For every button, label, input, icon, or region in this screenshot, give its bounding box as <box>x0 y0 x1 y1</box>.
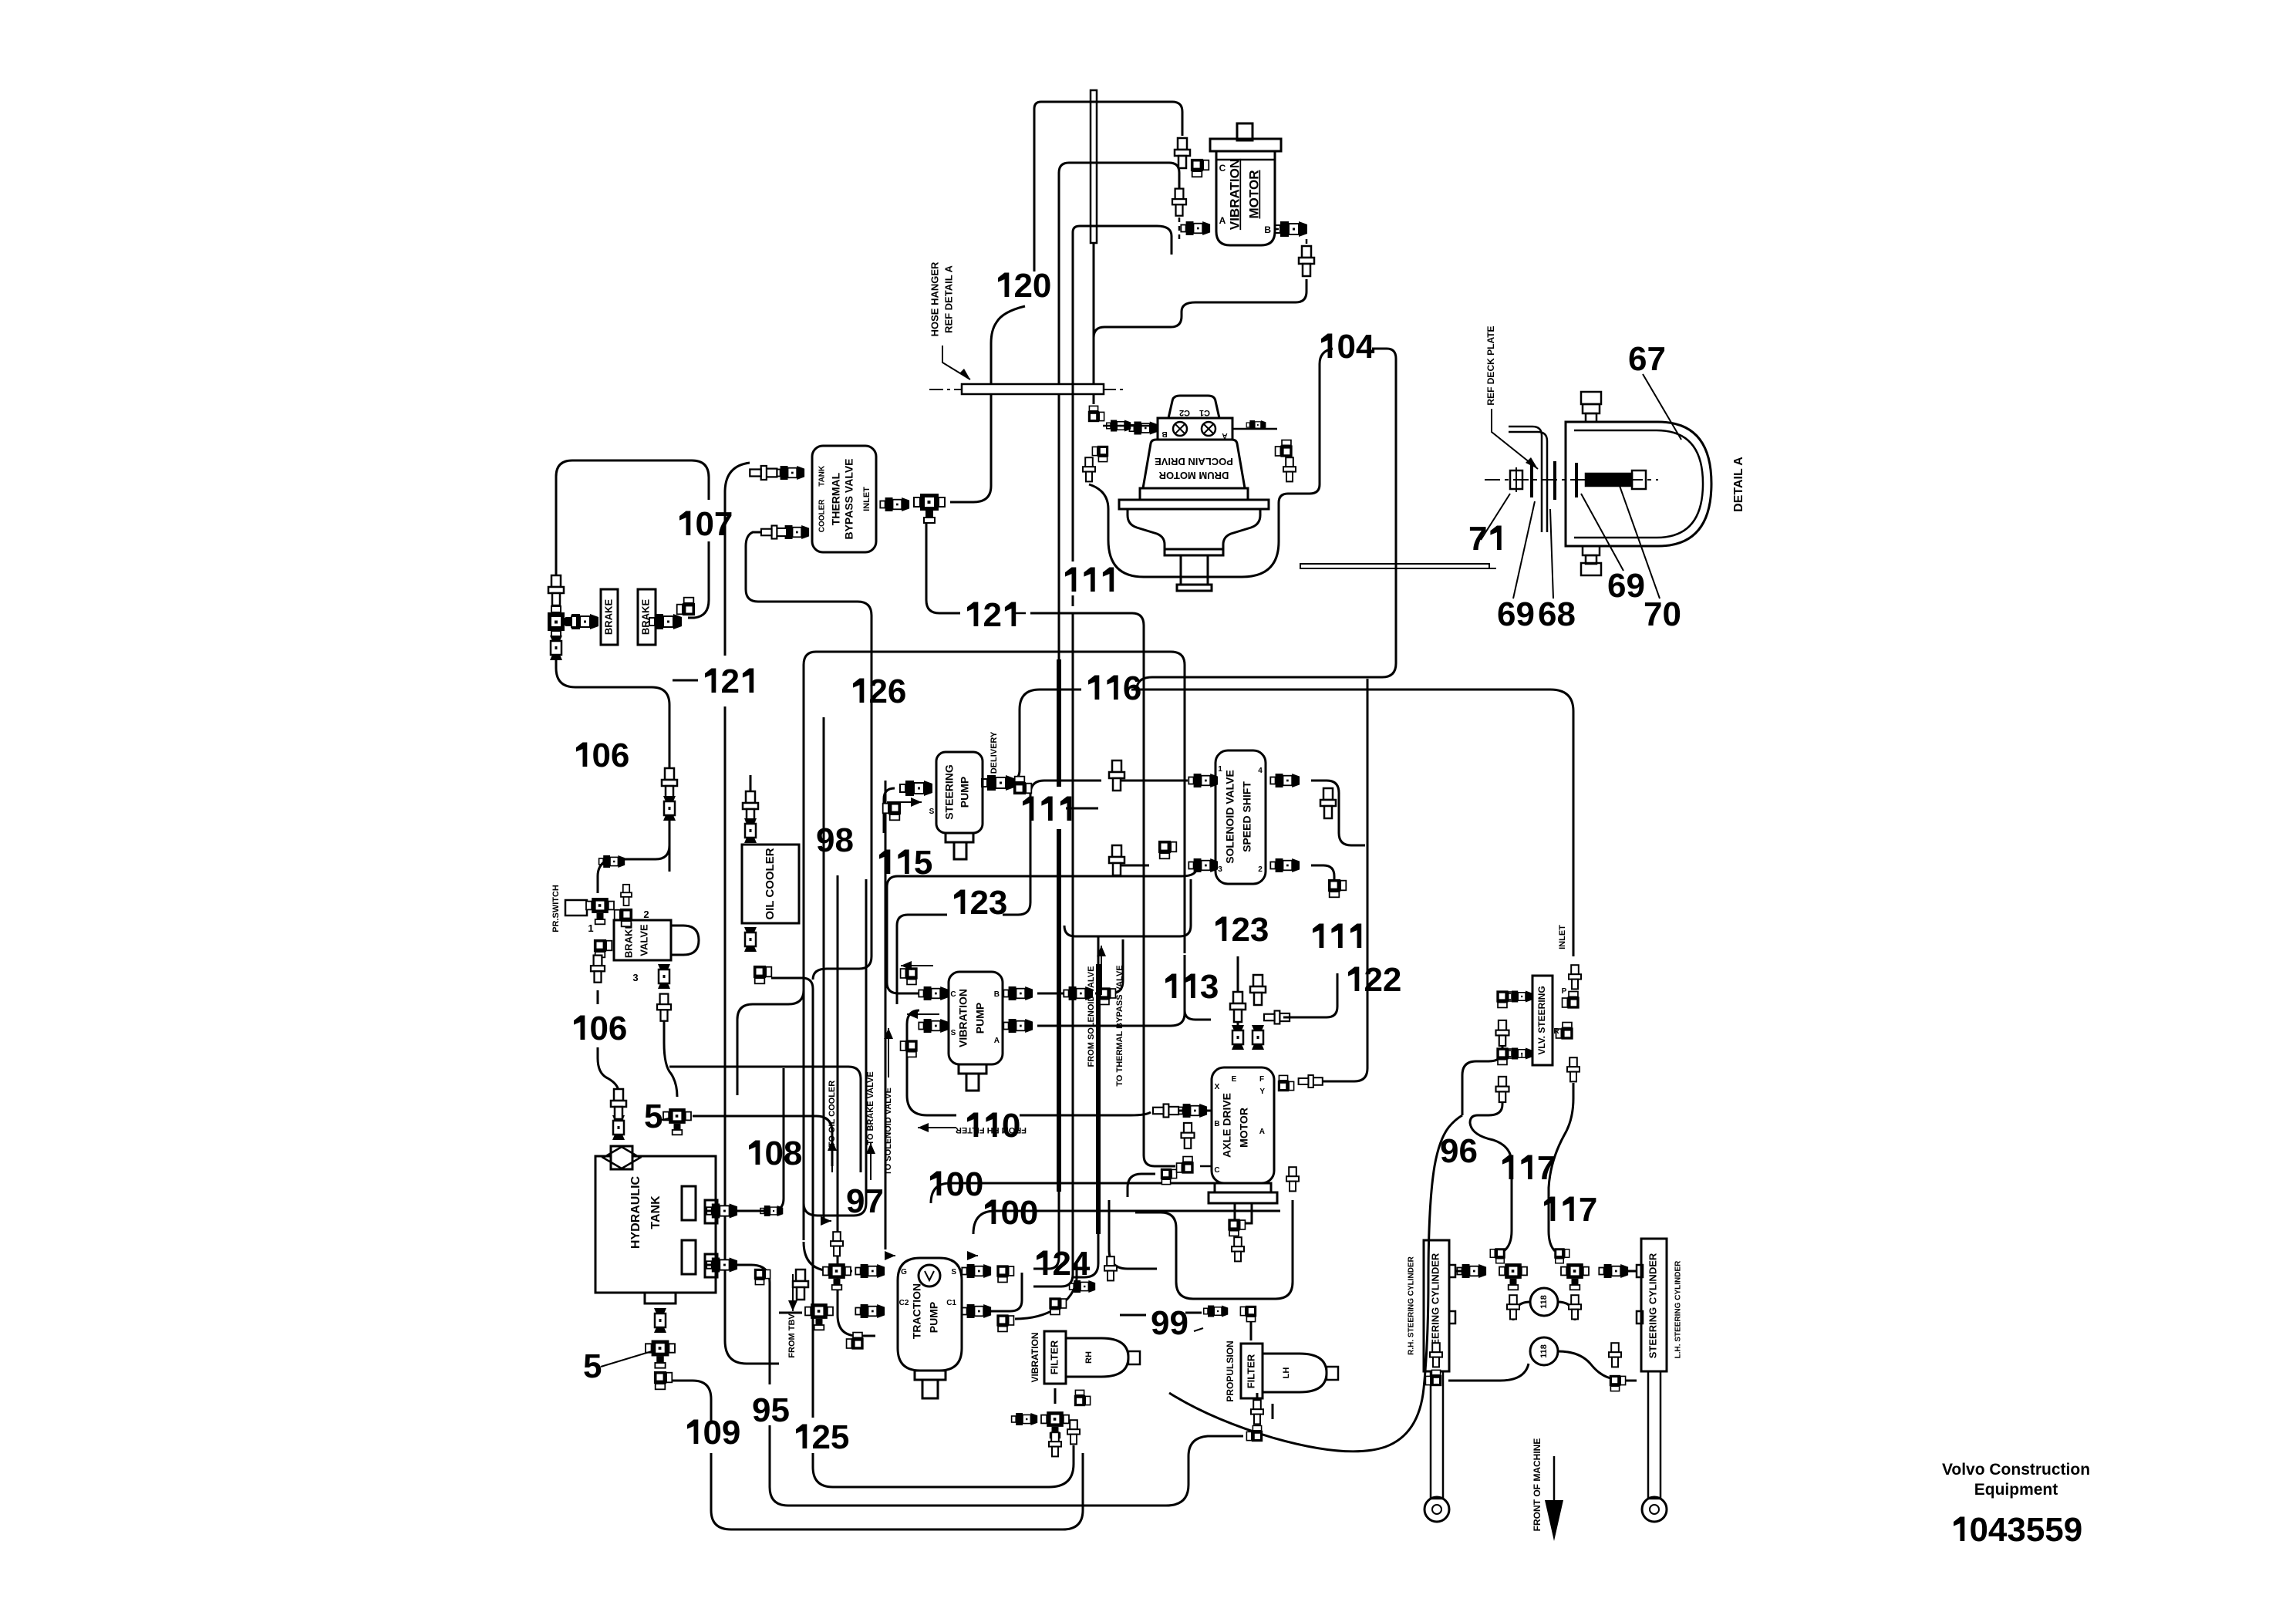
svg-text:0: 0 <box>696 505 714 543</box>
VLV steering fittings <box>1496 990 1513 1007</box>
wire vibration motor B port hose loop <box>1094 279 1306 338</box>
wire brake tee lower hose <box>556 657 669 768</box>
svg-text:6: 6 <box>1607 567 1626 605</box>
svg-text:0: 0 <box>946 1165 965 1203</box>
svg-text:C2: C2 <box>1179 408 1190 417</box>
wire 123b hose to solenoid <box>1064 879 1191 936</box>
svg-text:LH: LH <box>1282 1367 1291 1379</box>
svg-text:4: 4 <box>1071 1245 1091 1283</box>
svg-text:BRAKE: BRAKE <box>639 599 651 636</box>
svg-text:S: S <box>951 1268 956 1276</box>
RH filter fittings <box>1049 1297 1066 1314</box>
svg-text:DELIVERY: DELIVERY <box>990 731 999 774</box>
wire long trunk line A thick overlay <box>1057 659 1061 787</box>
svg-text:HOSE HANGER: HOSE HANGER <box>929 261 940 336</box>
steering pump flow arrow <box>887 801 922 803</box>
big callout numbers <box>998 273 1009 298</box>
svg-text:0: 0 <box>1970 1511 1988 1549</box>
svg-text:5: 5 <box>914 844 932 882</box>
svg-text:6: 6 <box>609 1010 627 1047</box>
wire traction pump left fittings chain <box>804 1242 852 1271</box>
svg-text:7: 7 <box>1647 340 1666 378</box>
steering pump <box>936 752 983 833</box>
washer 68 <box>1553 461 1556 500</box>
vibration motor fittings <box>1175 138 1190 168</box>
wire second top hose to vibration motor port A <box>1059 163 1179 660</box>
svg-text:2: 2 <box>643 909 649 920</box>
svg-text:2: 2 <box>983 596 1002 634</box>
tank top fittings <box>612 1115 625 1140</box>
svg-text:PUMP: PUMP <box>928 1302 940 1333</box>
svg-text:6: 6 <box>1459 1132 1478 1170</box>
svg-text:0: 0 <box>1020 1194 1038 1232</box>
svg-text:C2: C2 <box>899 1299 909 1307</box>
brake fittings <box>566 614 598 629</box>
svg-text:FRONT OF MACHINE: FRONT OF MACHINE <box>1532 1438 1542 1532</box>
wire trunk x1042 (98 hose down to traction G) <box>803 665 805 1240</box>
tank top diamond fitting <box>611 1146 632 1169</box>
wire vib pump B to right <box>1037 993 1064 995</box>
wire 99 hose <box>1120 1314 1146 1317</box>
brake right box <box>638 589 656 645</box>
VLV steering box <box>1532 976 1553 1065</box>
svg-text:TRACTION: TRACTION <box>911 1283 923 1339</box>
brake valve port1 fittings and 106 chain <box>594 939 612 957</box>
svg-text:0: 0 <box>965 1165 983 1203</box>
svg-text:6: 6 <box>1628 340 1647 378</box>
wire steering pump to 111 line <box>989 782 1003 784</box>
wire from-solenoid-valve thick trunk x1424 <box>1097 936 1100 964</box>
svg-text:MOTOR: MOTOR <box>1246 170 1261 219</box>
axle drive fittings <box>1232 1025 1244 1050</box>
svg-text:VIBRATION: VIBRATION <box>957 989 969 1047</box>
svg-text:VIBRATION: VIBRATION <box>1227 159 1242 230</box>
svg-text:118: 118 <box>1539 1295 1549 1309</box>
svg-text:2: 2 <box>1232 911 1250 949</box>
svg-text:5: 5 <box>771 1391 790 1429</box>
svg-text:1: 1 <box>1218 765 1222 774</box>
deck plate (detail) <box>1509 427 1542 532</box>
wire RH filter cross fittings hoses <box>1054 1388 1057 1404</box>
svg-text:TO THERMAL BYPASS VALVE: TO THERMAL BYPASS VALVE <box>1115 965 1124 1086</box>
svg-text:TO BRAKE VALVE: TO BRAKE VALVE <box>866 1071 875 1145</box>
fitting plug at hose1 end <box>1067 1420 1080 1444</box>
svg-text:POCLAIN DRIVE: POCLAIN DRIVE <box>1155 456 1233 467</box>
svg-text:9: 9 <box>1170 1304 1188 1342</box>
svg-text:6: 6 <box>1497 595 1515 633</box>
svg-text:A: A <box>1259 1128 1265 1136</box>
svg-text:TO OIL COOLER: TO OIL COOLER <box>828 1081 837 1147</box>
svg-text:7: 7 <box>1468 520 1487 558</box>
svg-text:2: 2 <box>869 673 888 710</box>
RH steering cylinder <box>1424 1240 1449 1371</box>
svg-text:C: C <box>1214 1166 1219 1175</box>
svg-text:3: 3 <box>1218 865 1222 874</box>
svg-text:8: 8 <box>835 821 854 859</box>
svg-text:0: 0 <box>1337 328 1356 366</box>
svg-text:0: 0 <box>765 1135 784 1172</box>
wire 117 hose a from VLV L lower port <box>1470 1098 1512 1251</box>
svg-text:6: 6 <box>888 673 906 710</box>
svg-text:PR.SWITCH: PR.SWITCH <box>551 885 561 932</box>
wire solenoid port1 hose from left <box>1117 780 1188 782</box>
wire vertical trunk x940 from bypass tank port to bottom <box>725 463 750 656</box>
svg-text:HYDRAULIC: HYDRAULIC <box>629 1175 642 1249</box>
wire 111b label dash <box>1066 808 1098 810</box>
tank bottom fitting <box>645 1293 676 1303</box>
svg-text:3: 3 <box>989 884 1007 922</box>
svg-text:L.H. STEERING CYLINDER: L.H. STEERING CYLINDER <box>1674 1260 1683 1358</box>
svg-text:PUMP: PUMP <box>974 1003 986 1034</box>
bolt 70 <box>1586 474 1632 486</box>
svg-text:0: 0 <box>703 1414 722 1452</box>
bracket bolts <box>1583 404 1600 413</box>
svg-text:TANK: TANK <box>649 1195 663 1229</box>
wire 117 hose b from VLV R port <box>1549 1083 1573 1251</box>
wire solenoid port4 hose right <box>1311 781 1365 845</box>
svg-text:9: 9 <box>816 821 834 859</box>
svg-text:R: R <box>1553 1027 1559 1036</box>
svg-text:REF DETAIL A: REF DETAIL A <box>942 265 954 332</box>
oil cooler fittings <box>743 791 758 821</box>
traction pump <box>898 1258 962 1371</box>
svg-text:C: C <box>950 990 956 999</box>
svg-text:AXLE DRIVE: AXLE DRIVE <box>1221 1093 1233 1158</box>
wire hose from tank bottom tee to right <box>669 1381 711 1423</box>
steering tee fittings row <box>1457 1264 1486 1278</box>
svg-text:E: E <box>1232 1075 1237 1084</box>
svg-text:BRAKE: BRAKE <box>622 922 634 959</box>
wire 121b dash <box>673 679 698 682</box>
svg-text:4: 4 <box>1988 1511 2008 1549</box>
svg-text:5: 5 <box>2026 1511 2045 1549</box>
wire 122 hose <box>1264 1011 1290 1024</box>
svg-text:C1: C1 <box>1199 408 1210 417</box>
wire 124 hose from C1 elbow up right <box>1015 1262 1077 1319</box>
wire 118 hose lower circle <box>1448 1364 1529 1381</box>
wire trunk x1123 (to brake valve) <box>804 879 866 1216</box>
wire bottom long hose 3 (109) <box>711 1453 1083 1529</box>
svg-text:COOLER TANK: COOLER TANK <box>818 465 827 532</box>
wire trunk x1148 (to solenoid valve) <box>885 781 887 1249</box>
vibration pump <box>949 972 1003 1064</box>
wire 113 hose vertical <box>1185 1010 1211 1020</box>
svg-text:STEERING: STEERING <box>943 764 956 820</box>
wire traction C1 hose to right <box>987 1273 1022 1311</box>
svg-text:2: 2 <box>970 884 989 922</box>
svg-text:S: S <box>951 1029 956 1037</box>
washer 69 left <box>1530 463 1533 497</box>
wire long trunk line A (111) lower <box>1033 1192 1059 1269</box>
svg-text:FROM SOLENOID VALVE: FROM SOLENOID VALVE <box>1087 966 1096 1067</box>
svg-text:PUMP: PUMP <box>959 777 971 808</box>
wire 118 hose upper circle <box>1513 1302 1530 1320</box>
wire trunk x1086 <box>837 875 839 1315</box>
svg-text:B: B <box>1214 1120 1219 1128</box>
wire steering cylinder cross hoses <box>1456 1270 1481 1273</box>
detail A bracket 67 <box>1566 422 1711 546</box>
wire 116 hose from steering pump delivery <box>1010 690 1081 781</box>
svg-text:6: 6 <box>611 737 629 774</box>
svg-text:0: 0 <box>1001 1194 1020 1232</box>
svg-text:2: 2 <box>812 1418 831 1456</box>
svg-text:DRUM MOTOR: DRUM MOTOR <box>1158 470 1229 481</box>
svg-text:Y: Y <box>1259 1088 1265 1096</box>
svg-text:INLET: INLET <box>1558 925 1567 949</box>
svg-text:2: 2 <box>721 663 740 700</box>
wire trunk x1068 <box>823 717 825 1219</box>
svg-text:7: 7 <box>865 1182 884 1220</box>
svg-text:F: F <box>1259 1075 1264 1084</box>
svg-text:2: 2 <box>1383 961 1401 999</box>
svg-text:5: 5 <box>2045 1511 2063 1549</box>
traction pump fittings <box>855 1264 885 1278</box>
svg-text:3: 3 <box>1250 911 1269 949</box>
vibration pump arrows <box>901 965 933 966</box>
svg-text:3: 3 <box>632 972 638 983</box>
svg-text:0: 0 <box>592 737 611 774</box>
118 circles <box>1530 1288 1558 1316</box>
svg-text:Equipment: Equipment <box>1974 1481 2058 1499</box>
svg-text:DETAIL A: DETAIL A <box>1732 457 1745 512</box>
hose hanger bar <box>962 384 1104 394</box>
svg-text:A: A <box>994 1037 1000 1045</box>
wire traction pump bottom hose <box>838 1315 875 1336</box>
svg-text:VALVE: VALVE <box>638 924 649 956</box>
svg-text:9: 9 <box>1627 567 1645 605</box>
svg-text:A: A <box>1219 215 1226 226</box>
svg-text:9: 9 <box>1440 1132 1458 1170</box>
LH filter fittings <box>1204 1306 1229 1317</box>
svg-text:4: 4 <box>1258 767 1263 775</box>
wire long trunk line B <box>1072 232 1074 561</box>
svg-text:OIL COOLER: OIL COOLER <box>764 848 777 919</box>
wire 115 hose steering pump left <box>884 788 895 833</box>
wire 107 hose loop (brakes) <box>556 460 709 581</box>
wire bottom long hose 2 (95) <box>770 1425 1243 1506</box>
wire third top hose loop under vibration motor <box>1073 226 1172 255</box>
wire 121 hose from thermal bypass tee down and right <box>926 518 960 613</box>
wire 104 hose loop around drum motor <box>1089 349 1333 577</box>
svg-text:9: 9 <box>2064 1511 2082 1549</box>
wire vib pump C hose <box>887 867 1197 993</box>
wire vib pump A to right <box>1037 955 1185 1026</box>
brake valve <box>614 920 671 960</box>
wire VLV steering L upper hose <box>1462 1043 1502 1115</box>
solenoid valve fittings <box>1188 774 1218 787</box>
oil cooler <box>742 845 799 923</box>
svg-text:RH: RH <box>1084 1351 1094 1364</box>
wire 96 hose long sweep to steering <box>1169 1115 1462 1452</box>
svg-text:P: P <box>1562 987 1567 996</box>
wire tank right port hoses <box>706 1068 784 1211</box>
wire oil cooler bottom elbow hose to right <box>771 978 813 1010</box>
wire 106 hose from brake valve port 1 down to tank <box>597 990 599 1004</box>
wire 123 hose top <box>897 915 947 1004</box>
hydraulic tank <box>595 1156 716 1293</box>
svg-text:2: 2 <box>1053 1245 1071 1283</box>
svg-text:9: 9 <box>752 1391 770 1429</box>
svg-text:SPEED SHIFT: SPEED SHIFT <box>1241 781 1253 852</box>
washer 69 right <box>1575 463 1578 497</box>
wire bottom long hose 1 (125) <box>813 1445 1074 1487</box>
svg-text:8: 8 <box>1557 595 1576 633</box>
thermal bypass valve <box>812 446 876 552</box>
wire 121b hose down to brake valve tee <box>623 818 669 859</box>
wire 116 long hose <box>1131 690 1573 956</box>
svg-text:G: G <box>901 1268 907 1276</box>
svg-text:8: 8 <box>784 1135 802 1172</box>
svg-text:FROM TBV: FROM TBV <box>787 1313 797 1358</box>
svg-text:STEERING CYLINDER: STEERING CYLINDER <box>1647 1253 1658 1358</box>
vibration pump fittings <box>919 986 948 1000</box>
wire hose hanger dash-dot centerline <box>929 389 1126 390</box>
svg-text:THERMAL: THERMAL <box>830 472 842 525</box>
wire solenoid port2 hose right <box>1311 865 1334 895</box>
svg-text:3: 3 <box>2007 1511 2025 1549</box>
svg-text:MOTOR: MOTOR <box>1238 1108 1250 1148</box>
svg-text:B: B <box>994 990 1000 999</box>
wire 110 hose from vib pump S to filter <box>907 1010 956 1115</box>
svg-text:L: L <box>1521 1052 1526 1061</box>
tank right fittings <box>706 1204 737 1219</box>
svg-text:B: B <box>1161 430 1167 438</box>
svg-text:VIBRATION: VIBRATION <box>1030 1332 1040 1382</box>
wire 98 long hose at y845 <box>804 652 1185 953</box>
svg-text:0: 0 <box>1033 267 1051 305</box>
svg-text:1: 1 <box>588 922 593 934</box>
wire axle drive A lower U hose <box>1135 1200 1293 1299</box>
svg-text:SOLENOID VALVE: SOLENOID VALVE <box>1224 770 1236 864</box>
svg-text:Volvo Construction: Volvo Construction <box>1942 1461 2090 1479</box>
wire axle drive X hose <box>1174 1110 1212 1112</box>
axle drive motor <box>1212 1067 1274 1183</box>
vibration motor <box>1210 123 1281 245</box>
svg-text:0: 0 <box>1002 1107 1020 1145</box>
wire deck plate thin bar (drum) <box>1300 564 1489 568</box>
wire hose 120 lower curve down to thermal bypass inlet <box>950 306 1025 502</box>
poclain drum motor <box>1119 396 1269 591</box>
svg-text:6: 6 <box>1123 669 1141 707</box>
wire 100 hoses (G/S tees) <box>931 1183 1265 1203</box>
brake left box <box>601 589 618 645</box>
svg-text:2: 2 <box>1014 267 1033 305</box>
traction pump arrows <box>885 1255 895 1256</box>
wire hose through hose hanger (tube) <box>1091 90 1097 243</box>
svg-text:7: 7 <box>1644 595 1662 633</box>
svg-text:4: 4 <box>1356 328 1375 366</box>
svg-text:S: S <box>929 808 935 816</box>
RH filter bottom cross fitting <box>1041 1411 1069 1438</box>
wire 126 vertical stub <box>746 532 872 980</box>
svg-text:BYPASS VALVE: BYPASS VALVE <box>843 458 855 539</box>
drum motor fittings <box>1088 406 1104 422</box>
svg-text:INLET: INLET <box>862 487 872 511</box>
svg-text:7: 7 <box>1537 1149 1556 1187</box>
svg-text:FILTER: FILTER <box>1245 1354 1256 1388</box>
wire brake valve port 3 hose down <box>664 1021 677 1097</box>
svg-text:FILTER: FILTER <box>1048 1340 1060 1374</box>
wire solenoid port3 hose from left <box>1117 865 1149 867</box>
wire hose from LH cylinder bottom elbow <box>1626 1380 1637 1382</box>
svg-text:X: X <box>1215 1083 1220 1091</box>
wire port3 tee line right at y1447 <box>693 1116 832 1166</box>
wire hose from brake valve area down (121 vertical) <box>669 818 671 872</box>
svg-text:7: 7 <box>714 505 733 543</box>
wire hose 97/100 horizontal <box>669 1067 861 1172</box>
svg-text:REF DECK PLATE: REF DECK PLATE <box>1485 325 1496 405</box>
svg-text:5: 5 <box>583 1347 602 1385</box>
svg-text:R.H. STEERING CYLINDER: R.H. STEERING CYLINDER <box>1408 1256 1416 1355</box>
svg-text:0: 0 <box>590 1010 609 1047</box>
svg-text:9: 9 <box>846 1182 865 1220</box>
detail A centerline <box>1485 479 1658 481</box>
svg-text:TO SOLENOID VALVE: TO SOLENOID VALVE <box>884 1088 893 1175</box>
wire axle drive Y hose from 1773 trunk <box>1316 679 1367 1081</box>
wire axle C port hose down <box>1109 1200 1157 1269</box>
wire oil cooler top fitting hose (from bypass cooler port) <box>750 775 752 794</box>
svg-text:VLV. STEERING: VLV. STEERING <box>1536 986 1547 1054</box>
svg-text:C: C <box>1219 163 1226 174</box>
svg-text:9: 9 <box>1151 1304 1169 1342</box>
nut 71 <box>1510 470 1522 489</box>
svg-text:5: 5 <box>644 1098 663 1135</box>
svg-text:3: 3 <box>1200 968 1219 1006</box>
wire axle drive F hose up <box>1257 1026 1259 1049</box>
svg-text:PROPULSION: PROPULSION <box>1225 1340 1236 1401</box>
wire axle drive C hose loop <box>1128 1174 1155 1197</box>
svg-text:2: 2 <box>1258 865 1263 874</box>
steering pump fittings <box>900 781 932 796</box>
svg-text:9: 9 <box>722 1414 740 1452</box>
svg-text:B: B <box>1264 224 1271 235</box>
svg-text:5: 5 <box>831 1418 849 1456</box>
LH steering cylinder <box>1641 1239 1667 1371</box>
thermal bypass valve fittings <box>775 466 804 480</box>
svg-text:A: A <box>1222 431 1227 440</box>
svg-text:0: 0 <box>1663 595 1681 633</box>
svg-text:6: 6 <box>1538 595 1556 633</box>
solenoid valve speed shift <box>1215 750 1266 884</box>
svg-text:BRAKE: BRAKE <box>602 599 614 636</box>
wire axle drive B hose <box>1200 1165 1212 1168</box>
svg-text:C1: C1 <box>946 1299 956 1307</box>
wire 120 hose to vibration motor port C <box>1034 102 1182 271</box>
wire axle drive E hose up <box>1237 956 1239 1049</box>
svg-text:9: 9 <box>1516 595 1535 633</box>
svg-text:7: 7 <box>1579 1191 1597 1229</box>
svg-text:118: 118 <box>1539 1344 1549 1358</box>
leader lines for callouts <box>662 1118 673 1120</box>
svg-text:2: 2 <box>1364 961 1383 999</box>
